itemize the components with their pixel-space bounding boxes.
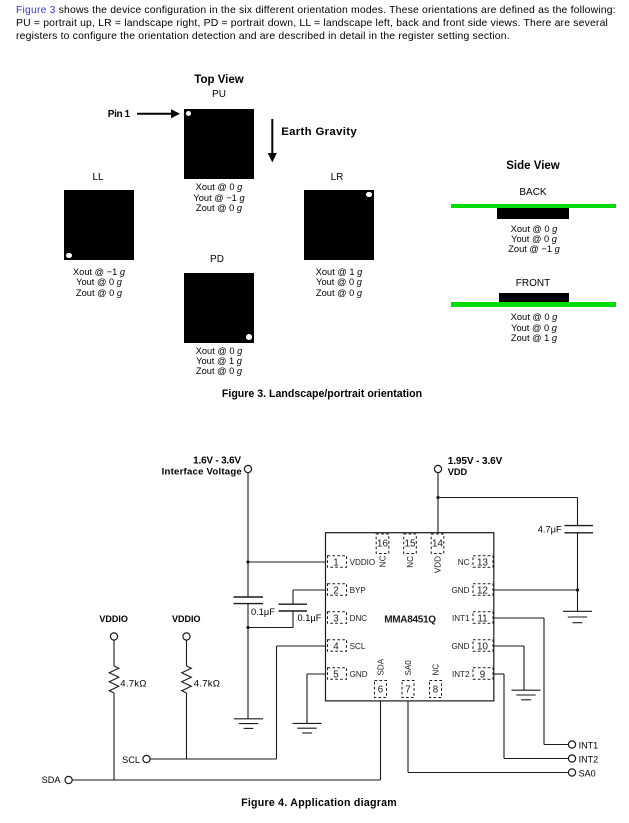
net label SA0	[579, 768, 596, 778]
pin boxes bottom 6,7,8	[375, 681, 442, 698]
svg-text:4.7μF: 4.7μF	[538, 525, 562, 535]
capacitor C2 0.1uF plates	[279, 604, 308, 611]
svg-text:SCL: SCL	[350, 642, 366, 651]
terminal: interface voltage	[244, 465, 251, 472]
terminal: SDA	[65, 776, 72, 783]
capacitor C3 4.7uF plates	[565, 526, 594, 533]
wire: pin 4 SCL to SCL line	[150, 646, 327, 759]
capacitor C1 0.1uF plates	[234, 597, 264, 604]
paragraph	[16, 5, 629, 43]
svg-text:4.7kΩ: 4.7kΩ	[120, 679, 146, 690]
Figure 4 caption	[169, 797, 469, 809]
wire: pin 10 GND to ground	[494, 646, 524, 690]
svg-text:SA0: SA0	[579, 768, 596, 778]
svg-text:5: 5	[333, 669, 339, 680]
wire: pin 9 INT2 to INT2 terminal	[494, 674, 568, 759]
terminal: VDD	[434, 465, 441, 472]
svg-text:13: 13	[477, 557, 488, 568]
value C2	[298, 613, 322, 623]
Pin 1 label + arrow	[108, 109, 130, 120]
svg-text:8: 8	[433, 684, 439, 695]
wire: C1 bottom to ground rail	[247, 604, 249, 719]
Earth Gravity arrow	[265, 118, 280, 164]
pin names bottom rotated	[377, 658, 441, 675]
svg-text:VDD: VDD	[434, 556, 443, 573]
svg-text:0.1μF: 0.1μF	[251, 607, 275, 617]
svg-text:15: 15	[405, 538, 416, 549]
label VDDIO R2	[172, 614, 201, 624]
terminal: SA0	[568, 769, 575, 776]
wire: C2 top to pin 2 BYP	[293, 590, 327, 604]
value C1	[251, 607, 275, 617]
Figure 3 caption	[172, 388, 472, 400]
Top View title	[169, 74, 269, 86]
LL	[48, 172, 148, 183]
terminal: INT2	[568, 755, 575, 762]
svg-text:BYP: BYP	[350, 586, 366, 595]
svg-text:7: 7	[405, 684, 410, 695]
label 1.6V-3.6V Interface Voltage	[162, 456, 242, 478]
svg-text:INT2: INT2	[452, 670, 470, 679]
terminal: INT1	[568, 741, 575, 748]
chip U1 MMA8451Q outline	[326, 533, 494, 701]
svg-text:2: 2	[333, 585, 338, 596]
value 4.7k R1	[120, 679, 146, 690]
label VDDIO R1	[99, 614, 128, 624]
ground G1	[234, 719, 263, 729]
svg-text:1: 1	[333, 557, 338, 568]
terminal: SCL	[143, 755, 150, 762]
net label INT2	[579, 754, 599, 764]
svg-text:SCL: SCL	[122, 755, 140, 765]
svg-text:GND: GND	[350, 670, 368, 679]
svg-text:INT2: INT2	[579, 754, 599, 764]
wire: junction to C2 bottom	[248, 611, 293, 628]
wire: rail to pin 1 VDDIO	[248, 561, 327, 563]
svg-text:NC: NC	[432, 664, 441, 676]
svg-text:INT1: INT1	[452, 614, 470, 623]
wire: pin 5 GND to ground	[307, 674, 327, 723]
svg-text:4: 4	[333, 641, 339, 652]
net label SDA	[42, 775, 62, 785]
svg-text:SA0: SA0	[404, 660, 413, 676]
svg-text:VDD: VDD	[448, 467, 468, 477]
terminal: VDDIO1	[110, 633, 117, 640]
value 4.7k R2	[194, 679, 220, 690]
pin numbers	[333, 538, 488, 695]
pin boxes right 13-9	[473, 556, 493, 680]
svg-text:GND: GND	[452, 642, 470, 651]
resistor R2 4.7k	[182, 640, 192, 759]
net label INT1	[579, 740, 599, 750]
ground G4	[563, 611, 592, 622]
svg-text:3: 3	[333, 613, 339, 624]
svg-text:9: 9	[480, 669, 485, 680]
svg-text:NC: NC	[458, 558, 470, 567]
PU square	[184, 109, 254, 179]
chip name MMA8451Q	[384, 615, 436, 626]
svg-text:10: 10	[477, 641, 488, 652]
svg-text:SDA: SDA	[377, 658, 386, 675]
wire: pin 7 SA0 to SA0 terminal	[408, 701, 568, 773]
svg-text:SDA: SDA	[42, 775, 62, 785]
label 1.95V-3.6V VDD	[448, 456, 503, 477]
svg-text:11: 11	[477, 613, 487, 624]
svg-text:16: 16	[377, 538, 388, 549]
svg-text:Interface Voltage: Interface Voltage	[162, 467, 242, 478]
PU labels	[169, 182, 269, 213]
svg-text:DNC: DNC	[350, 614, 368, 623]
svg-text:VDDIO: VDDIO	[172, 614, 201, 624]
wire: VDD rail to pin 14	[437, 473, 439, 533]
wire: SDA line to pin 6	[72, 701, 380, 780]
svg-text:NC: NC	[406, 556, 415, 568]
svg-text:14: 14	[432, 538, 443, 549]
svg-text:INT1: INT1	[579, 740, 599, 750]
pin boxes top 16,15,14	[376, 534, 444, 554]
wire: pin 11 INT1 to INT1 terminal	[494, 618, 568, 745]
svg-text:VDDIO: VDDIO	[350, 558, 376, 567]
wire: VDD rail to C3	[438, 498, 578, 526]
svg-text:1.6V - 3.6V: 1.6V - 3.6V	[193, 456, 241, 467]
svg-text:4.7kΩ: 4.7kΩ	[194, 679, 220, 690]
PD	[167, 254, 267, 265]
Side View	[473, 160, 593, 172]
pin boxes left 1-5	[328, 556, 347, 680]
svg-text:GND: GND	[452, 586, 470, 595]
svg-text:1.95V - 3.6V: 1.95V - 3.6V	[448, 456, 503, 467]
LR	[287, 172, 387, 183]
svg-text:0.1μF: 0.1μF	[298, 613, 322, 623]
net label SCL	[122, 755, 140, 765]
ground G2	[293, 723, 322, 733]
svg-text:NC: NC	[379, 555, 388, 567]
resistor R1 4.7k	[109, 640, 119, 780]
wire: C3 bottom to ground, junction at pin 12	[494, 533, 578, 611]
svg-text:12: 12	[477, 585, 488, 596]
ground G3	[512, 690, 541, 700]
svg-text:VDDIO: VDDIO	[99, 614, 128, 624]
svg-text:6: 6	[378, 684, 384, 695]
wire: interface voltage rail vertical	[247, 473, 249, 597]
pin names right	[452, 558, 470, 679]
pin names top rotated	[379, 555, 443, 573]
pin names left	[350, 558, 376, 679]
terminal: VDDIO2	[183, 633, 190, 640]
junction dots	[246, 496, 579, 629]
svg-text:MMA8451Q: MMA8451Q	[384, 615, 436, 626]
value C3	[538, 525, 562, 535]
